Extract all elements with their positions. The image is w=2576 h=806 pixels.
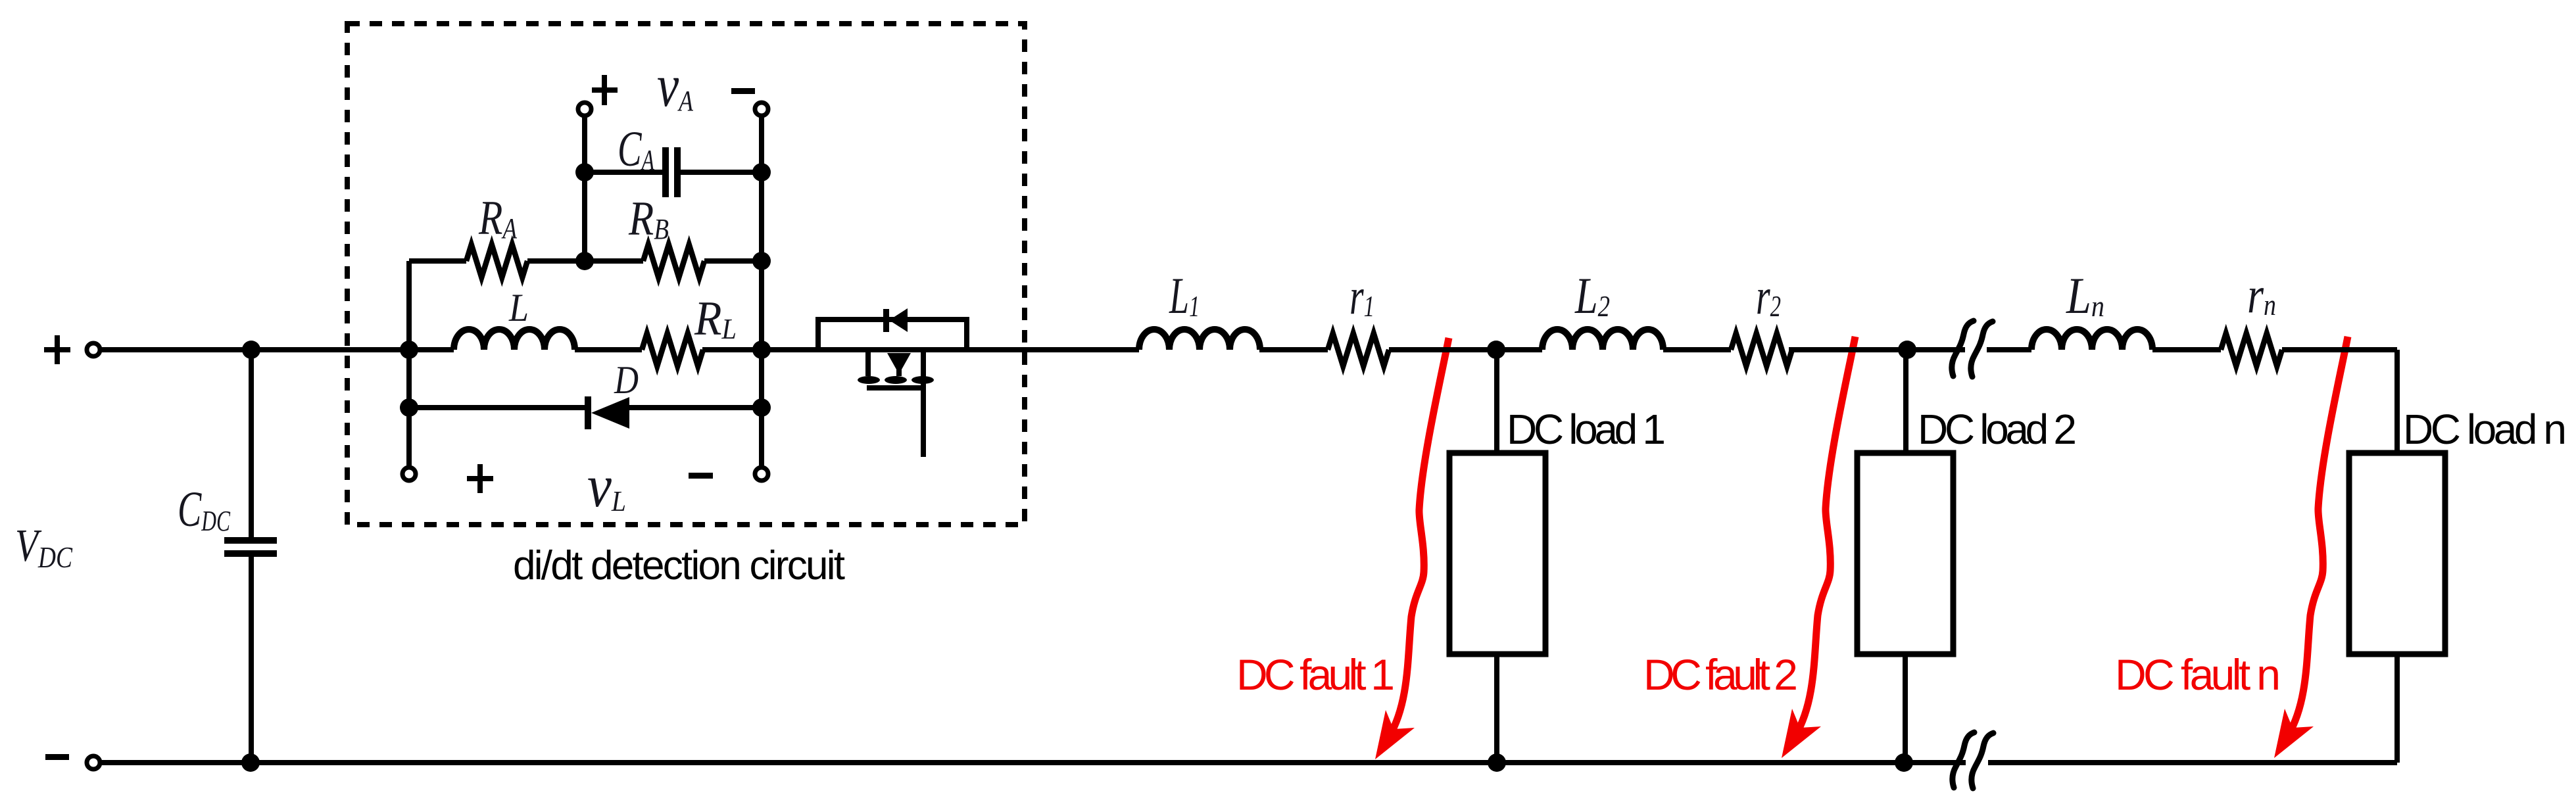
node left bus diode row [400,398,418,417]
resistor R_L [642,333,703,366]
terminal - circle bottom left [87,756,100,769]
svg-text:di/dt detection circuit: di/dt detection circuit [513,543,845,588]
wire mid vertical [582,118,587,261]
diode D [585,396,629,429]
node R junction mid [575,252,594,270]
resistor r2 [1731,333,1792,366]
break mark top rail [1952,321,1993,377]
node bottom C_DC [241,753,260,772]
body diode of MOSFET [883,308,908,332]
wire load2 top lead [1903,350,1908,453]
wire top rail [102,347,2397,352]
node load2 bottom [1895,753,1913,772]
svg-text:DC load n: DC load n [2403,406,2567,453]
node right bus diode row [752,398,771,417]
wire R_A row [409,258,762,264]
wire right bus [759,118,764,465]
DC fault 2 arrow [1795,337,1855,736]
node right bus main [752,341,771,359]
svg-text:DC load 1: DC load 1 [1507,406,1666,453]
node C_A right [752,163,771,181]
terminal v_L plus [402,467,416,481]
svg-text:DC fault n: DC fault n [2115,650,2281,699]
DC load 1 box [1449,453,1545,654]
inductor L1 [1139,329,1260,350]
terminal v_A plus [578,103,591,116]
transistor MOSFET source/gate lead [921,350,926,457]
node load1 top [1487,341,1505,359]
minus sign v_L [689,473,713,479]
resistor r1 [1328,333,1389,366]
transistor MOSFET arrow [887,353,911,374]
node load1 bottom [1488,753,1506,772]
resistor rn [2221,333,2282,366]
wire diode row [409,405,762,410]
wire left bus of detection circuit [406,261,412,465]
terminal v_A minus [755,103,768,116]
break mark bottom rail [1953,732,1993,788]
wire bottom rail [102,760,2397,765]
wire C_A row [585,170,762,175]
svg-text:D: D [614,358,639,402]
wire loadn top lead [2394,350,2400,453]
node C_A left [575,163,594,181]
DC fault n arrow [2288,337,2348,736]
inductor L [454,329,575,350]
wire load1 bottom lead [1494,654,1499,763]
svg-text:DC fault 1: DC fault 1 [1236,650,1395,699]
minus terminal label bottom left [45,754,69,760]
wire C_DC branch [249,350,254,763]
transistor MOSFET contact pads [858,376,934,384]
DC load 2 box [1857,453,1953,654]
terminal + circle left [87,343,100,356]
plus sign v_L [467,464,493,493]
terminal v_L minus [755,467,768,481]
inductor L2 [1542,329,1663,350]
capacitor C_DC [224,537,277,557]
transistor MOSFET gate bar [867,385,925,391]
plus terminal label [44,335,70,364]
svg-text:DC load 2: DC load 2 [1918,406,2077,453]
plus sign v_A [592,75,618,105]
inductor Ln [2031,329,2152,350]
node left bus main [400,341,418,359]
wire load1 top lead [1494,350,1499,453]
node load2 top [1898,341,1916,359]
wire load2 bottom lead [1903,654,1908,763]
DC load n box [2349,453,2445,654]
minus sign v_A [731,88,755,94]
capacitor C_A [662,147,681,197]
wire loadn bottom lead [2394,654,2400,763]
resistor R_B [643,245,704,277]
resistor R_A [466,245,527,277]
node top C_DC [242,341,260,359]
transistor MOSFET left stub [865,350,871,376]
MOSFET body diode branch [818,320,967,350]
svg-text:L: L [508,286,529,329]
DC fault 1 arrow [1389,338,1449,737]
node R right bus [752,252,771,270]
dashed box of di/dt detection circuit [347,24,1025,525]
svg-text:DC fault 2: DC fault 2 [1643,650,1798,699]
